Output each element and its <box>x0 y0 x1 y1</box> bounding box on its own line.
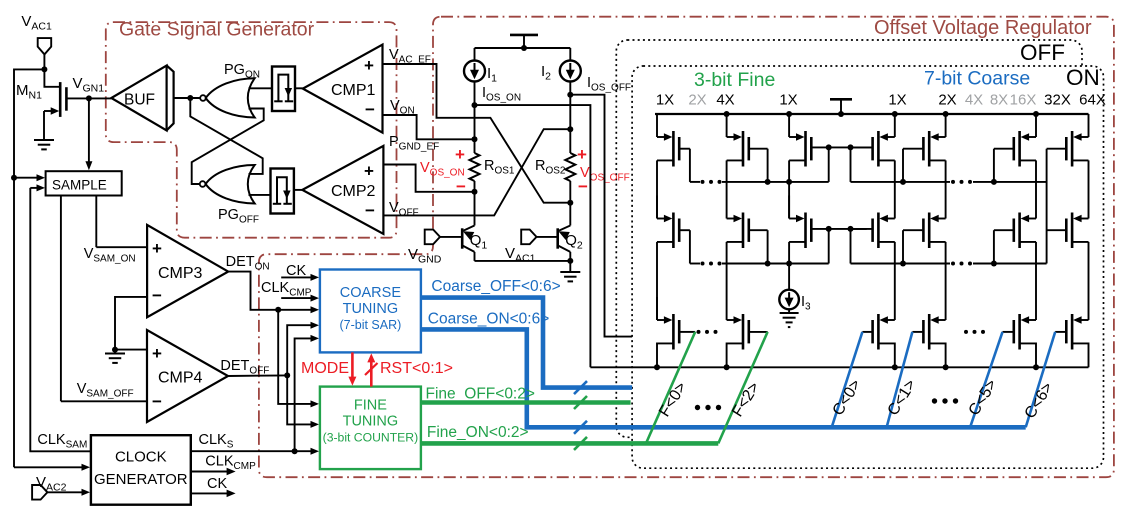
transistor MC1b (2X coarse row2) <box>945 196 947 219</box>
svg-text:+: + <box>152 239 162 258</box>
svg-text:+: + <box>364 56 374 75</box>
bias column 1X fine row2 (diode) <box>788 196 790 219</box>
NOR gate PGOFF <box>200 181 206 187</box>
wire VSAM_OFF to CMP4 <box>61 400 147 402</box>
transistor MF2a (4X fine row1) <box>726 114 728 137</box>
SAMPLE box <box>46 171 122 195</box>
transistor MC6b (64X coarse row2) <box>1088 196 1090 219</box>
BUF output wire <box>174 97 201 99</box>
IOS_OFF sense wire <box>570 95 632 337</box>
transistor MC0c (1X coarse row3 switch) <box>894 242 896 297</box>
IOS_ON sense wire <box>475 105 591 367</box>
svg-text:3-bit Fine: 3-bit Fine <box>694 69 775 91</box>
wire VAC_EF to Q2 emitter node (diagonal) <box>383 64 571 203</box>
svg-text:−: − <box>365 100 375 119</box>
ON regulator dotted box <box>632 66 1103 468</box>
wire VOFF to ROS2 top (diagonal) <box>383 129 570 215</box>
transistor MC5c (32X coarse row3 switch) <box>1035 242 1037 297</box>
svg-text:32X: 32X <box>1044 91 1071 108</box>
svg-text:(7-bit SAR): (7-bit SAR) <box>339 318 401 332</box>
svg-text:1X: 1X <box>656 91 674 108</box>
arrows into SAMPLE <box>11 175 17 181</box>
input arrow from VAC1 rail <box>14 466 82 468</box>
NOR gate PGON <box>200 95 206 101</box>
CLOCK GENERATOR box <box>91 435 191 505</box>
svg-text:−: − <box>578 177 588 196</box>
wire VON to ROS1 top <box>383 115 475 139</box>
svg-text:COARSE: COARSE <box>340 285 402 301</box>
ellipsis between select labels <box>695 405 700 410</box>
current source I1 <box>474 48 476 61</box>
resistor ROS1 <box>470 153 480 181</box>
svg-text:2X: 2X <box>938 91 956 108</box>
supply symbol T <box>510 34 538 37</box>
svg-text:(3-bit COUNTER): (3-bit COUNTER) <box>323 431 418 445</box>
transistor MC1c (2X coarse row3 switch) <box>945 242 947 297</box>
I2 branch wire + nodes <box>569 82 571 154</box>
bias column 1X fine row1 (diode) <box>788 114 790 137</box>
current source I3 <box>788 264 790 290</box>
buffer BUF <box>111 66 166 131</box>
svg-text:Coarse_ON<0:6>: Coarse_ON<0:6> <box>428 311 550 328</box>
svg-text:ON: ON <box>1066 65 1100 90</box>
Fine_OFF bus wire <box>421 400 631 405</box>
svg-text:CMP4: CMP4 <box>158 370 203 387</box>
left vertical rail <box>14 69 44 467</box>
svg-text:−: − <box>456 177 466 196</box>
transistor Q1 (PNP) <box>461 228 464 248</box>
C<6> select diagonal <box>1026 332 1056 427</box>
DET_ON wire <box>228 272 311 310</box>
CLK_CMP output <box>191 471 227 473</box>
latch cross wire B <box>192 109 264 185</box>
svg-text:CMP1: CMP1 <box>331 82 376 99</box>
CK output <box>191 492 227 494</box>
F<0> select diagonal <box>646 332 695 444</box>
svg-text:2X: 2X <box>688 91 706 108</box>
transistor MC6c (64X coarse row3 switch) <box>1088 242 1090 297</box>
svg-text:RST<0:1>: RST<0:1> <box>380 360 453 377</box>
ground below MN1 <box>34 139 54 141</box>
resistor ROS2 <box>565 153 575 181</box>
array top supply rail <box>655 113 1089 115</box>
svg-text:−: − <box>152 286 162 305</box>
RST arrow <box>370 360 373 386</box>
svg-text:−: − <box>152 392 162 411</box>
supply rail I1/I2 <box>475 47 571 49</box>
DET_OFF to COARSE <box>287 325 311 375</box>
svg-text:+: + <box>455 145 465 164</box>
one-shot box 2 <box>271 169 294 214</box>
transistor MF0b (1X fine row2) <box>656 160 658 218</box>
OFF regulator dotted box <box>616 40 1082 437</box>
row3 ellipsis marks <box>697 330 701 334</box>
svg-text:BUF: BUF <box>124 92 155 109</box>
F<2> select diagonal <box>718 332 767 444</box>
ground below Q2 <box>569 261 571 272</box>
svg-text:CMP2: CMP2 <box>331 183 376 200</box>
VGN1 node <box>66 97 111 99</box>
array output rail (ON) <box>590 366 1088 368</box>
comparator CMP1 <box>303 45 383 133</box>
transistor MC0b (1X coarse row2) <box>894 196 896 219</box>
one-shot box 1 <box>272 67 295 112</box>
svg-text:Gate Signal Generator: Gate Signal Generator <box>119 19 315 41</box>
transistor MC6a (64X coarse row1) <box>1088 114 1090 137</box>
svg-text:TUNING: TUNING <box>343 414 399 430</box>
svg-text:8X: 8X <box>990 91 1008 108</box>
DET_OFF to FINE <box>287 375 311 424</box>
row2 gate bias bus <box>690 263 700 265</box>
svg-text:−: − <box>365 201 375 220</box>
Gate Signal Generator dash-dot box <box>106 22 397 238</box>
wire PGND_EF to ROS1 bottom <box>383 165 474 192</box>
port VAC1 top <box>38 38 52 54</box>
Coarse_OFF bus wire <box>421 298 632 388</box>
wire VAC1 to MN1 drain <box>43 54 45 69</box>
wire box2 to CMP2 <box>294 189 302 191</box>
port VGND <box>425 230 440 245</box>
svg-text:Fine_ON<0:2>: Fine_ON<0:2> <box>427 424 529 441</box>
wire VGN1 to SAMPLE <box>88 98 90 162</box>
svg-text:Coarse_OFF<0:6>: Coarse_OFF<0:6> <box>431 278 560 295</box>
svg-text:GENERATOR: GENERATOR <box>94 471 188 488</box>
svg-text:SAMPLE: SAMPLE <box>52 178 107 193</box>
comparator CMP3 <box>147 225 228 317</box>
svg-text:CK: CK <box>207 476 227 492</box>
Offset Voltage Regulator dash-dot box (L-shaped) <box>259 17 1114 478</box>
svg-text:MODE: MODE <box>301 360 349 377</box>
Fine_ON bus wire <box>421 441 718 446</box>
bus slash marks <box>574 381 587 394</box>
transistor MC1a (2X coarse row1) <box>945 114 947 137</box>
svg-text:+: + <box>152 344 162 363</box>
transistor MF0a (1X fine row1) <box>656 114 658 137</box>
transistor MF0c (1X fine row3 switch) <box>656 242 658 320</box>
svg-text:CLOCK: CLOCK <box>115 449 167 466</box>
comparator CMP2 <box>302 146 383 234</box>
wire VSAM_ON to CMP3 <box>96 246 147 248</box>
svg-text:1X: 1X <box>779 91 797 108</box>
shared ground for CMP3-/CMP4+ <box>115 297 147 350</box>
current source I2 <box>569 48 571 61</box>
svg-text:7-bit Coarse: 7-bit Coarse <box>924 68 1030 90</box>
wire box1 to CMP1 <box>294 87 303 89</box>
FINE TUNING box <box>320 387 421 470</box>
svg-text:Offset Voltage Regulator: Offset Voltage Regulator <box>874 17 1092 39</box>
SAMPLE outputs <box>95 196 97 248</box>
svg-text:1X: 1X <box>888 91 906 108</box>
transistor MN1 <box>44 69 60 86</box>
supply symbol (array) <box>830 98 852 101</box>
transistor Q2 (PNP) <box>556 228 559 248</box>
DET_ON to FINE <box>278 310 311 404</box>
COARSE TUNING box <box>320 270 421 353</box>
transistor MF2b (4X fine row2) <box>726 196 728 219</box>
port VAC1 (Q2 base) <box>521 230 536 245</box>
svg-text:64X: 64X <box>1079 91 1106 108</box>
comparator CMP4 <box>147 330 228 422</box>
C<1> select diagonal <box>887 332 913 427</box>
svg-text:CMP3: CMP3 <box>158 265 203 282</box>
svg-text:+: + <box>577 145 587 164</box>
row1 gate bias bus <box>690 181 700 183</box>
C<5> select diagonal <box>970 332 1002 427</box>
svg-text:16X: 16X <box>1010 91 1037 108</box>
wire NOR2 to box2 <box>249 194 271 196</box>
svg-text:+: + <box>364 162 374 181</box>
svg-text:OFF: OFF <box>1020 40 1065 65</box>
svg-text:Fine_OFF<0:2>: Fine_OFF<0:2> <box>426 386 535 403</box>
port VAC2 <box>32 485 47 500</box>
DET_OFF wire <box>228 374 287 377</box>
CLK_SAM riser <box>30 188 91 451</box>
svg-text:4X: 4X <box>716 91 734 108</box>
Coarse_ON bus wire <box>421 329 1026 427</box>
MODE arrow <box>351 352 354 378</box>
C<0> select diagonal <box>832 332 863 427</box>
svg-text:FINE: FINE <box>354 398 387 414</box>
CLK_S output <box>191 450 311 452</box>
I1 branch wire + nodes <box>474 82 476 154</box>
transistor MC0a (1X coarse row1) <box>894 114 896 137</box>
wire NOR1 to box1 <box>249 87 273 89</box>
transistor MC5b (32X coarse row2) <box>1035 196 1037 219</box>
transistor MC5a (32X coarse row1) <box>1035 114 1037 137</box>
svg-text:TUNING: TUNING <box>343 301 399 317</box>
CLK_S riser to COARSE <box>295 338 311 451</box>
Q1-Q2 common collector wire <box>475 260 571 262</box>
transistor MF2c (4X fine row3 switch) <box>726 242 728 297</box>
svg-text:4X: 4X <box>965 91 983 108</box>
latch cross wire A <box>190 98 262 174</box>
